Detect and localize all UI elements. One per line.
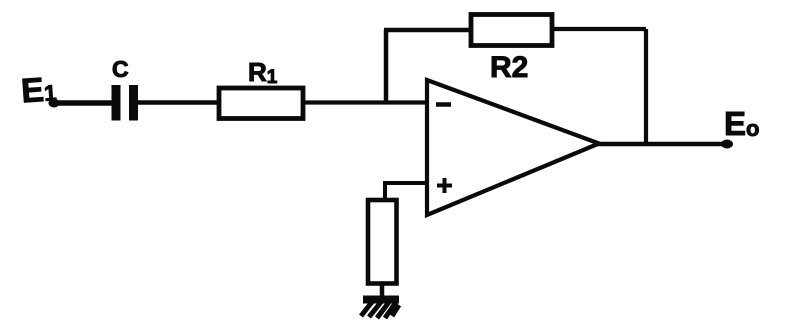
inverting input minus sign	[436, 102, 451, 107]
input terminal E1	[49, 99, 60, 108]
label Eo	[724, 105, 759, 142]
svg-text:Eo: Eo	[724, 105, 759, 142]
wire feedback right vertical	[644, 29, 648, 146]
label C	[112, 56, 129, 82]
svg-text:E1: E1	[20, 70, 58, 110]
op-amp U1	[427, 80, 599, 215]
wire R3 to ground	[380, 284, 385, 298]
wire op-amp output	[597, 142, 726, 147]
resistor R2	[471, 15, 552, 46]
svg-text:R1: R1	[248, 57, 278, 88]
svg-text:R2: R2	[490, 51, 528, 84]
output terminal Eo	[721, 140, 733, 149]
wire R1 to inverting input	[303, 100, 427, 104]
wire feedback top right	[550, 27, 646, 31]
label E1	[20, 70, 58, 110]
resistor R1	[219, 88, 303, 119]
non-inverting input plus sign	[437, 178, 452, 193]
node feedback junction	[384, 30, 389, 102]
wire capacitor to R1	[138, 100, 219, 105]
label R1	[248, 57, 278, 88]
wire E1 to capacitor	[52, 100, 113, 106]
wire non-inverting input	[385, 183, 427, 200]
ground	[361, 296, 399, 319]
resistor R3 to ground	[368, 200, 397, 284]
capacitor C	[112, 85, 139, 121]
svg-text:C: C	[112, 56, 129, 82]
wire feedback top left	[384, 28, 471, 33]
label R2	[490, 51, 528, 84]
